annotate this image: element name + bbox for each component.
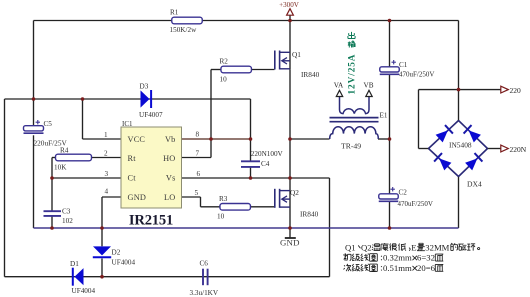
svg-text:102: 102 <box>62 217 73 225</box>
svg-text:VA: VA <box>334 82 344 90</box>
svg-text:0.51mm: 0.51mm <box>383 263 412 273</box>
svg-text:Ct: Ct <box>128 174 137 183</box>
svg-text:Q1: Q1 <box>345 242 356 252</box>
svg-text:R4: R4 <box>60 147 69 155</box>
svg-text:IR840: IR840 <box>300 209 319 218</box>
svg-text:VCC: VCC <box>128 135 146 144</box>
svg-text:TR-49: TR-49 <box>341 142 361 151</box>
svg-text:D2: D2 <box>112 248 121 256</box>
svg-text:R2: R2 <box>220 58 229 66</box>
svg-text:20=6: 20=6 <box>417 263 436 273</box>
svg-text:3.3u/1KV: 3.3u/1KV <box>190 289 219 297</box>
svg-text:C1: C1 <box>399 61 408 69</box>
svg-text:UF4007: UF4007 <box>139 111 163 119</box>
svg-text:8: 8 <box>196 131 200 139</box>
svg-text:E1: E1 <box>380 111 388 119</box>
svg-text:+300V: +300V <box>279 1 300 9</box>
svg-text:R3: R3 <box>219 195 228 203</box>
svg-text:0.32mm: 0.32mm <box>383 253 412 263</box>
svg-text:IR2151: IR2151 <box>129 212 173 228</box>
svg-text:HO: HO <box>163 154 175 163</box>
svg-text:470uF/250V: 470uF/250V <box>398 200 433 208</box>
svg-text:220N: 220N <box>510 145 527 154</box>
svg-text:Vs: Vs <box>166 174 176 183</box>
svg-text:GND: GND <box>280 238 300 248</box>
svg-text:IR840: IR840 <box>301 70 320 79</box>
svg-text:1: 1 <box>104 131 108 139</box>
svg-text:Q2: Q2 <box>290 188 299 197</box>
svg-text:C4: C4 <box>261 160 270 168</box>
svg-text:10K: 10K <box>54 164 67 172</box>
svg-text:Rt: Rt <box>128 154 137 163</box>
svg-text:5: 5 <box>195 189 199 197</box>
svg-text:UF4004: UF4004 <box>112 258 136 266</box>
svg-text:C6: C6 <box>200 259 209 267</box>
svg-text:6: 6 <box>197 170 201 178</box>
svg-text:C2: C2 <box>399 188 408 196</box>
svg-text:C3: C3 <box>62 208 71 216</box>
svg-text:Vb: Vb <box>165 135 176 144</box>
svg-text:D3: D3 <box>140 83 149 91</box>
svg-text:220N100V: 220N100V <box>251 150 284 158</box>
svg-text:D1: D1 <box>70 260 79 268</box>
svg-text:UF4004: UF4004 <box>72 287 96 295</box>
svg-text:220uF/25V: 220uF/25V <box>34 138 68 147</box>
svg-text:DX4: DX4 <box>467 179 482 188</box>
svg-text:Q2: Q2 <box>361 242 372 252</box>
svg-text:12V/25A: 12V/25A <box>347 54 357 95</box>
svg-text:LO: LO <box>164 193 175 202</box>
svg-text:2: 2 <box>104 150 108 158</box>
svg-text:6=32: 6=32 <box>417 253 435 263</box>
svg-text:IC1: IC1 <box>122 120 133 128</box>
svg-text:C5: C5 <box>44 120 53 128</box>
svg-text:150K/2w: 150K/2w <box>170 26 198 34</box>
svg-text:32MM: 32MM <box>425 242 449 252</box>
svg-text:VB: VB <box>364 82 374 90</box>
svg-text:IN5408: IN5408 <box>449 141 472 150</box>
svg-text:220: 220 <box>510 86 522 95</box>
svg-text:10: 10 <box>220 76 228 84</box>
svg-text:GND: GND <box>128 193 147 202</box>
svg-text:E: E <box>411 242 416 252</box>
svg-text:Q1: Q1 <box>292 50 301 59</box>
svg-text:4: 4 <box>105 188 109 196</box>
svg-text:3: 3 <box>105 170 109 178</box>
svg-text:7: 7 <box>196 150 200 158</box>
svg-text:10: 10 <box>217 213 225 221</box>
svg-text:R1: R1 <box>170 9 179 17</box>
svg-text:470uF/250V: 470uF/250V <box>399 71 434 79</box>
